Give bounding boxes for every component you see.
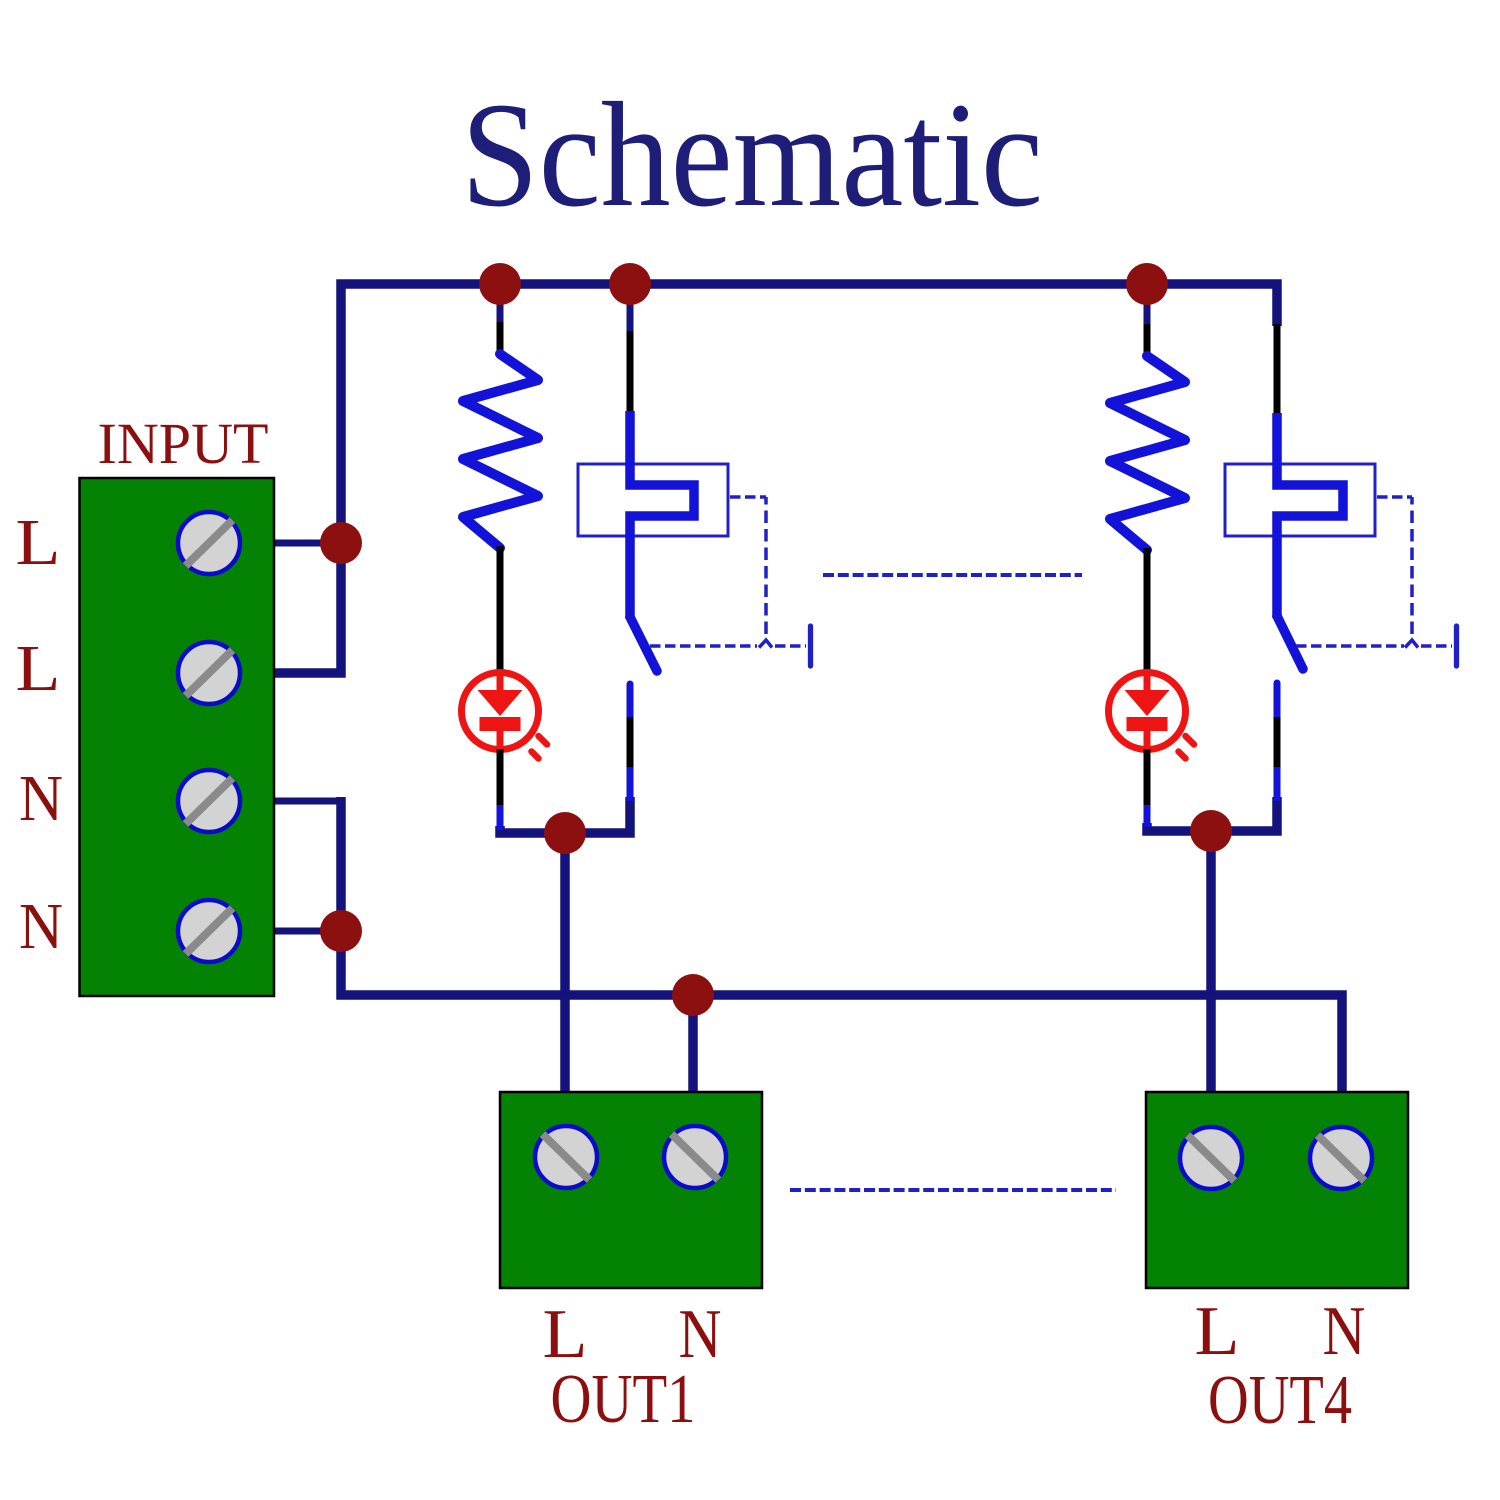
- terminal block OUT4: [1146, 1092, 1408, 1288]
- wire stub below node C (ch4 resistor branch): [1144, 284, 1151, 326]
- switch contact K4 (movable arm): [1277, 616, 1303, 669]
- wire segment black above resistor R4: [1144, 324, 1151, 358]
- junction dot input L: [320, 522, 362, 564]
- continuation dashes (channels 2-3, middle): [823, 573, 1082, 577]
- mechanical linkage K4 (dashed): [1296, 497, 1457, 666]
- relay coil box K4: [1225, 464, 1375, 536]
- junction dot node C (ch4 resistor): [1126, 263, 1168, 305]
- relay coil K1: [630, 411, 694, 619]
- relay coil box K1: [578, 464, 728, 536]
- relay coil K4: [1277, 413, 1343, 618]
- junction dot ch1 output: [544, 812, 586, 854]
- screw terminal INPUT row 2 (L): [178, 642, 240, 704]
- wire ch4 bottom junction link: [1147, 797, 1277, 831]
- wire ch1 bottom junction link: [500, 797, 630, 833]
- LED D4: [1109, 673, 1195, 759]
- screw terminal INPUT row 3 (N): [178, 770, 240, 832]
- terminal block INPUT: [80, 478, 275, 996]
- wire segment black between R1 and LED D1: [497, 546, 504, 673]
- wire segment blue switch K4 lower stub: [1274, 683, 1281, 719]
- wire input N row-3 stub: [273, 798, 341, 805]
- wire segment blue switch K1 lower stub: [627, 684, 634, 719]
- LED D1: [462, 673, 548, 759]
- wire segment black switch K1 lower: [627, 717, 634, 769]
- svg-text:N: N: [19, 890, 63, 963]
- mechanical linkage K1 (dashed): [650, 497, 811, 666]
- screw terminal OUT1 N: [664, 1126, 726, 1188]
- continuation dashes (channels 2-3, bottom): [790, 1188, 1116, 1192]
- screw terminal OUT4 L: [1180, 1127, 1242, 1189]
- wire stub below node B (ch1 coil branch): [627, 284, 634, 333]
- svg-text:N: N: [1323, 1293, 1366, 1370]
- switch contact K1 (movable arm): [630, 617, 657, 671]
- resistor R1: [463, 354, 538, 548]
- wire input L row-1 stub: [273, 540, 341, 547]
- wire segment black above relay coil K4: [1274, 324, 1281, 415]
- wire L rail (top bus from input L to channels): [273, 284, 1277, 673]
- wire segment black below LED D4: [1144, 749, 1151, 807]
- svg-text:OUT1: OUT1: [551, 1361, 696, 1438]
- screw terminal INPUT row 4 (N): [178, 900, 240, 962]
- svg-text:L: L: [16, 632, 61, 705]
- svg-text:L: L: [1195, 1293, 1240, 1370]
- svg-text:OUT4: OUT4: [1208, 1362, 1352, 1439]
- wire stub below node A (ch1 resistor branch): [497, 284, 504, 324]
- wire segment blue switch K1 bottom: [627, 767, 634, 801]
- wire OUT4 L lead: [1206, 831, 1216, 1098]
- screw terminal OUT1 L: [535, 1126, 597, 1188]
- wire OUT1 N lead: [688, 995, 698, 1098]
- screw terminal INPUT row 1 (L): [178, 512, 240, 574]
- screw terminal OUT4 N: [1310, 1127, 1372, 1189]
- wire segment black above resistor R1: [497, 322, 504, 356]
- svg-text:N: N: [19, 762, 63, 835]
- wire segment black below LED D1: [497, 749, 504, 807]
- junction dot node B (ch1 coil): [609, 263, 651, 305]
- junction dot ch4 output: [1190, 810, 1232, 852]
- wire segment black switch K4 lower: [1274, 717, 1281, 769]
- wire segment black between R4 and LED D4: [1144, 548, 1151, 673]
- wire segment blue above ch1 bottom corner: [497, 805, 504, 830]
- wire input N row-4 stub: [273, 928, 341, 935]
- wire OUT1 L lead: [560, 833, 570, 1098]
- svg-text:L: L: [16, 506, 61, 579]
- junction dot node A (ch1 resistor): [479, 263, 521, 305]
- svg-text:INPUT: INPUT: [98, 411, 269, 476]
- resistor R4: [1110, 356, 1185, 550]
- terminal block OUT1: [500, 1092, 762, 1288]
- wire segment black above relay coil K1: [627, 331, 634, 413]
- svg-text:Schematic: Schematic: [461, 72, 1043, 238]
- wire N bus (bottom rail to OUT4 N): [341, 797, 1342, 1098]
- junction dot N bus / OUT1 N: [672, 974, 714, 1016]
- wire segment blue switch K4 bottom: [1274, 767, 1281, 801]
- junction dot input N: [320, 910, 362, 952]
- wire segment blue above ch4 bottom corner: [1144, 805, 1151, 827]
